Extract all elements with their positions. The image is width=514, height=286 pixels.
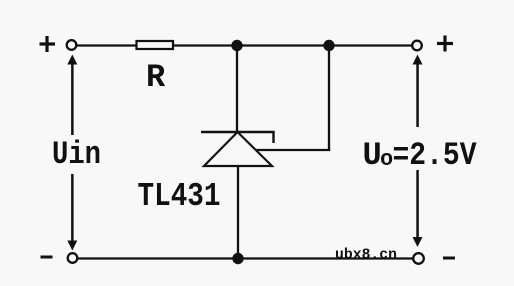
svg-text:ubx8.cn: ubx8.cn — [335, 247, 397, 264]
plus sign top-left — [40, 36, 56, 52]
resistor R — [137, 41, 174, 49]
minus sign bottom-right — [443, 257, 455, 260]
Vin measure arrow up — [67, 55, 77, 136]
wire reference feedback vertical — [328, 46, 330, 151]
terminal circle bottom-right — [413, 253, 424, 264]
svg-text:=2.5V: =2.5V — [393, 137, 478, 174]
node junction dot bottom — [232, 253, 243, 264]
svg-text:TL431: TL431 — [138, 178, 221, 215]
svg-text:U: U — [363, 137, 382, 174]
terminal circle top-left — [67, 40, 77, 50]
Vin measure arrow down — [67, 174, 77, 251]
wire reference feedback horizontal — [256, 149, 330, 151]
svg-text:o: o — [380, 147, 393, 172]
Uo measure arrow down — [413, 170, 423, 247]
wire top rail right — [174, 44, 413, 46]
svg-text:R: R — [146, 59, 166, 96]
TL431 U1 triangle — [204, 132, 272, 166]
wire TL431 anode lead — [237, 166, 239, 259]
node junction dot top-center — [231, 40, 242, 51]
svg-text:Uin: Uin — [52, 136, 101, 173]
Uo measure arrow up — [413, 55, 423, 128]
node junction dot top-right — [323, 40, 334, 51]
wire bottom rail — [78, 257, 414, 259]
wire TL431 cathode lead — [236, 46, 238, 133]
wire top rail left — [76, 44, 136, 46]
terminal circle bottom-left — [68, 253, 78, 263]
TL431 U1 cathode bar — [201, 132, 274, 143]
minus sign bottom-left — [41, 256, 53, 259]
terminal circle top-right — [412, 41, 422, 51]
plus sign top-right — [437, 36, 453, 52]
